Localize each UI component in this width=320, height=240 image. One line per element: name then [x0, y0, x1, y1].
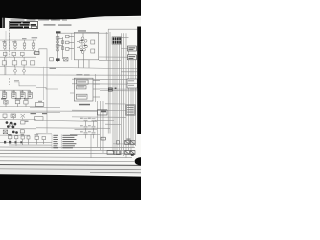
handwritten note	[44, 24, 72, 25]
capacitor pairs C10-C15	[84, 119, 96, 139]
diodes D1-D3 row	[3, 114, 25, 119]
wire: vertical feed node A	[9, 30, 11, 86]
resistor-transistor groups R1-R4/Q13-Q16 row 1	[4, 40, 35, 50]
connector J1	[108, 88, 113, 92]
resistors R5-R8 row 3	[2, 57, 35, 75]
op-amp module U1 outline	[74, 32, 98, 59]
stamp box	[9, 22, 37, 29]
label text line	[11, 20, 68, 21]
transistor cluster Q20-Q24	[6, 121, 17, 128]
IC packages IC1-IC4 row 4	[3, 90, 33, 98]
wire: stepped net left	[14, 80, 36, 86]
diode bridge D4 and pair Q25 Q26	[3, 130, 24, 134]
jumper JP1	[101, 137, 105, 140]
relay K1	[35, 52, 40, 55]
capacitors C1-C3 row 2	[3, 52, 24, 57]
wire: long horizontal nets across page	[0, 67, 137, 69]
bottom black band	[0, 174, 141, 200]
wire: top bus net	[58, 32, 109, 34]
wire: bottom-left feed nets with fuses F1-F4	[0, 142, 52, 145]
node C marking	[131, 154, 134, 156]
top band lower-left corner extension	[0, 17, 3, 28]
connectors CN4 CN5	[107, 150, 121, 154]
wire: top right net	[108, 28, 137, 30]
wire: vertical drops to bottom harness	[91, 74, 103, 158]
regulator module U2 with internal blocks	[74, 78, 100, 101]
net labels CN1 CN2	[128, 46, 137, 60]
wire: long bottom harness nets	[0, 147, 141, 173]
wire: right crossing nets	[72, 79, 137, 91]
filter module FL1	[98, 110, 108, 115]
wire: loop net at node B	[33, 49, 47, 76]
value label for U1	[78, 30, 86, 31]
wire: left section horizontal buses	[0, 40, 36, 57]
wire: mid-right horizontal nets	[72, 104, 126, 125]
wire: stepped net mid	[36, 88, 58, 90]
wire: U2 pin stub	[70, 92, 74, 94]
scan ink blob artifact	[135, 157, 148, 165]
capacitor row C4-C9	[9, 136, 46, 146]
right black border	[137, 27, 141, 135]
wire: lower-left horizontal nets	[0, 107, 97, 136]
transistor group Q17-Q19	[4, 100, 28, 106]
node TP1 markings	[56, 31, 61, 61]
relays K2 K3	[35, 103, 44, 121]
connector table CN3	[126, 105, 136, 115]
top black band	[0, 0, 141, 20]
label edge bar	[3, 16, 5, 28]
crossover junctions X1 X2	[117, 140, 136, 144]
transistors Q1-Q8 inside U1	[77, 33, 95, 68]
page background	[0, 0, 141, 200]
crossover junctions X3 X4	[117, 151, 136, 155]
net name label	[79, 104, 90, 106]
wire: mid-low horizontal nets	[30, 108, 110, 135]
terminal block TB1	[127, 79, 137, 88]
parts list table	[53, 135, 77, 149]
transistor chain Q9-Q12 with resistors R10-R12	[50, 34, 75, 62]
scan shading above bottom band	[0, 166, 141, 175]
wire: right vertical bus lines	[106, 29, 135, 158]
DIP switch S1 block	[112, 37, 122, 44]
